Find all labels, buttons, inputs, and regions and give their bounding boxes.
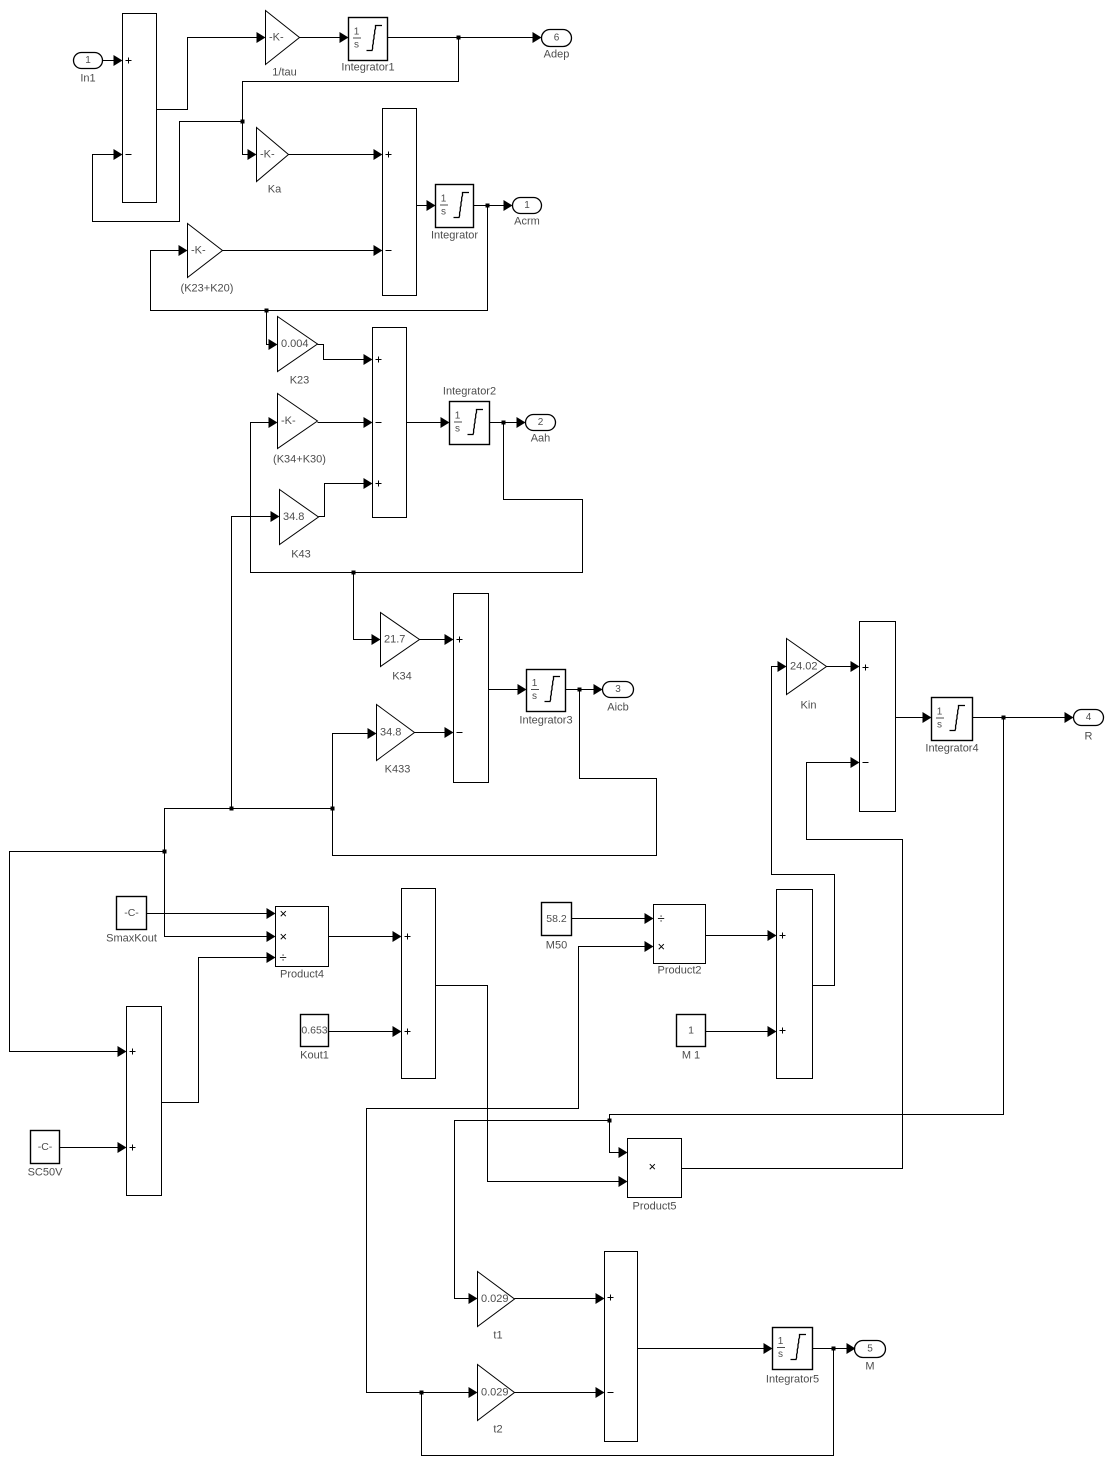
svg-text:s: s xyxy=(937,720,942,731)
svg-text:2: 2 xyxy=(538,417,544,428)
svg-text:÷: ÷ xyxy=(658,911,665,926)
svg-text:0.653: 0.653 xyxy=(301,1025,327,1037)
svg-text:4: 4 xyxy=(1086,712,1092,723)
svg-text:1: 1 xyxy=(937,707,943,718)
svg-text:Kin: Kin xyxy=(801,700,817,712)
svg-text:34.8: 34.8 xyxy=(283,511,304,523)
svg-text:Adep: Adep xyxy=(544,49,570,61)
svg-text:1: 1 xyxy=(688,1025,694,1037)
svg-text:1: 1 xyxy=(85,55,91,66)
svg-text:t1: t1 xyxy=(493,1330,502,1342)
svg-text:1: 1 xyxy=(524,200,530,211)
svg-text:1/tau: 1/tau xyxy=(272,67,296,79)
svg-text:×: × xyxy=(280,929,288,944)
svg-text:s: s xyxy=(441,207,446,218)
svg-text:Integrator1: Integrator1 xyxy=(341,62,394,74)
svg-text:M50: M50 xyxy=(546,940,567,952)
svg-text:Ka: Ka xyxy=(268,184,282,196)
svg-text:Integrator4: Integrator4 xyxy=(925,743,978,755)
svg-text:-K-: -K- xyxy=(260,149,275,161)
svg-text:Aah: Aah xyxy=(531,433,551,445)
svg-text:1: 1 xyxy=(455,411,461,422)
svg-text:Kout1: Kout1 xyxy=(300,1050,329,1062)
svg-text:58.2: 58.2 xyxy=(546,913,567,925)
svg-text:-K-: -K- xyxy=(281,415,296,427)
svg-text:t2: t2 xyxy=(493,1424,502,1436)
svg-text:SmaxKout: SmaxKout xyxy=(106,933,157,945)
svg-text:K43: K43 xyxy=(291,549,311,561)
svg-text:Integrator2: Integrator2 xyxy=(443,386,496,398)
svg-text:0.004: 0.004 xyxy=(281,338,309,350)
svg-text:M 1: M 1 xyxy=(682,1050,700,1062)
svg-text:-C-: -C- xyxy=(124,907,139,919)
svg-text:Acrm: Acrm xyxy=(514,216,540,228)
svg-text:÷: ÷ xyxy=(280,950,287,965)
svg-text:Aicb: Aicb xyxy=(607,702,628,714)
svg-text:SC50V: SC50V xyxy=(28,1167,64,1179)
svg-text:6: 6 xyxy=(554,33,560,44)
svg-text:-K-: -K- xyxy=(269,32,284,44)
svg-text:R: R xyxy=(1085,731,1093,743)
svg-text:Product5: Product5 xyxy=(632,1201,676,1213)
svg-text:s: s xyxy=(354,40,359,51)
svg-text:s: s xyxy=(455,424,460,435)
svg-text:1: 1 xyxy=(354,27,360,38)
svg-text:M: M xyxy=(865,1361,874,1373)
svg-text:(K34+K30): (K34+K30) xyxy=(273,454,326,466)
svg-text:1: 1 xyxy=(778,1336,784,1347)
svg-text:s: s xyxy=(532,691,537,702)
svg-text:×: × xyxy=(649,1159,657,1174)
svg-text:-K-: -K- xyxy=(191,245,206,257)
svg-text:K23: K23 xyxy=(290,375,310,387)
svg-text:1: 1 xyxy=(441,194,447,205)
svg-text:5: 5 xyxy=(867,1344,873,1355)
svg-text:-C-: -C- xyxy=(38,1141,53,1153)
svg-text:K433: K433 xyxy=(385,764,411,776)
svg-text:Integrator5: Integrator5 xyxy=(766,1374,819,1386)
svg-text:3: 3 xyxy=(615,684,621,695)
svg-text:×: × xyxy=(658,939,666,954)
svg-text:In1: In1 xyxy=(80,73,95,85)
svg-text:(K23+K20): (K23+K20) xyxy=(181,283,234,295)
svg-text:0.029: 0.029 xyxy=(481,1387,509,1399)
svg-text:K34: K34 xyxy=(392,671,412,683)
svg-text:Product2: Product2 xyxy=(657,965,701,977)
svg-text:Product4: Product4 xyxy=(280,969,324,981)
svg-text:34.8: 34.8 xyxy=(380,727,401,739)
svg-text:s: s xyxy=(778,1349,783,1360)
svg-text:24.02: 24.02 xyxy=(790,661,818,673)
svg-text:1: 1 xyxy=(532,678,538,689)
svg-text:Integrator: Integrator xyxy=(431,230,478,242)
svg-text:0.029: 0.029 xyxy=(481,1293,509,1305)
svg-text:×: × xyxy=(280,906,288,921)
svg-text:21.7: 21.7 xyxy=(384,634,405,646)
svg-text:Integrator3: Integrator3 xyxy=(519,715,572,727)
